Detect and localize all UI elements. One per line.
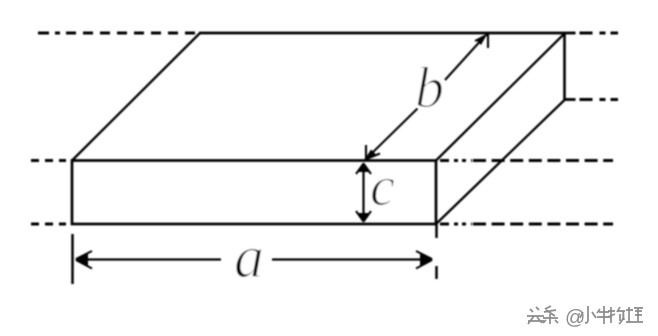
dashed reference line lower-right of face dash-dot part — [440, 223, 472, 226]
svg-text:b: b — [415, 55, 444, 120]
svg-text:@: @ — [565, 307, 585, 329]
watermark char xiao — [580, 306, 596, 323]
dashed reference line lower-right of face dashes — [473, 223, 613, 226]
slab top-left edge — [72, 33, 200, 161]
slab bottom-right edge — [436, 100, 565, 225]
dimension arrow b shaft lower segment — [368, 109, 418, 158]
dashed reference line top-left dashes — [66, 32, 196, 35]
watermark char xiao — [581, 307, 597, 324]
dashed reference line top-right dashes — [580, 32, 619, 35]
dimension arrow c bottom arrowhead — [356, 211, 371, 223]
dashed reference line upper-right of face dash-dot part — [440, 159, 472, 162]
extension line right below slab dashed — [435, 224, 438, 279]
dimension arrow a left arrowhead — [75, 251, 92, 269]
slab top-back edge — [199, 32, 566, 35]
extension line left below slab — [71, 234, 74, 284]
dimension arrow b bottom arrowhead — [364, 145, 380, 161]
dimension arrow c top arrowhead — [356, 163, 371, 175]
watermark char niu — [597, 306, 611, 324]
watermark char li — [627, 308, 644, 324]
dashed reference line upper-right of face dashes — [473, 159, 613, 162]
slab top-right edge — [436, 33, 565, 161]
watermark char tiao — [543, 306, 558, 324]
watermark toutiao xiaoniu physics — [528, 307, 644, 330]
dimension arrow a right arrowhead — [416, 251, 433, 269]
svg-text:a: a — [234, 224, 264, 290]
dimension arrow b shaft upper segment — [445, 37, 484, 80]
watermark char wu — [609, 308, 626, 325]
dimension arrow b top arrowhead — [475, 34, 488, 49]
slab front face — [72, 161, 436, 225]
dimension arrow a left shaft — [79, 258, 221, 260]
dimension arrow a right shaft — [272, 258, 430, 260]
watermark char niu — [598, 307, 612, 325]
dimension arrow c shaft — [362, 165, 364, 220]
slab right-back vertical edge — [563, 32, 566, 100]
watermark char tiao — [544, 307, 559, 325]
watermark char tou — [527, 307, 544, 324]
watermark char wu — [608, 307, 625, 324]
watermark char li — [626, 307, 643, 323]
dashed reference line mid-right stub — [564, 98, 576, 101]
dashed reference line top-right stub — [566, 32, 576, 35]
dashed reference line mid-right dashes — [580, 98, 619, 101]
svg-text:c: c — [370, 156, 395, 218]
dashed reference line upper-left of face — [31, 159, 66, 162]
dashed reference line top-left dash-dot part — [38, 32, 66, 35]
watermark char tou — [528, 308, 545, 325]
dashed reference line lower-left of face — [31, 223, 66, 226]
